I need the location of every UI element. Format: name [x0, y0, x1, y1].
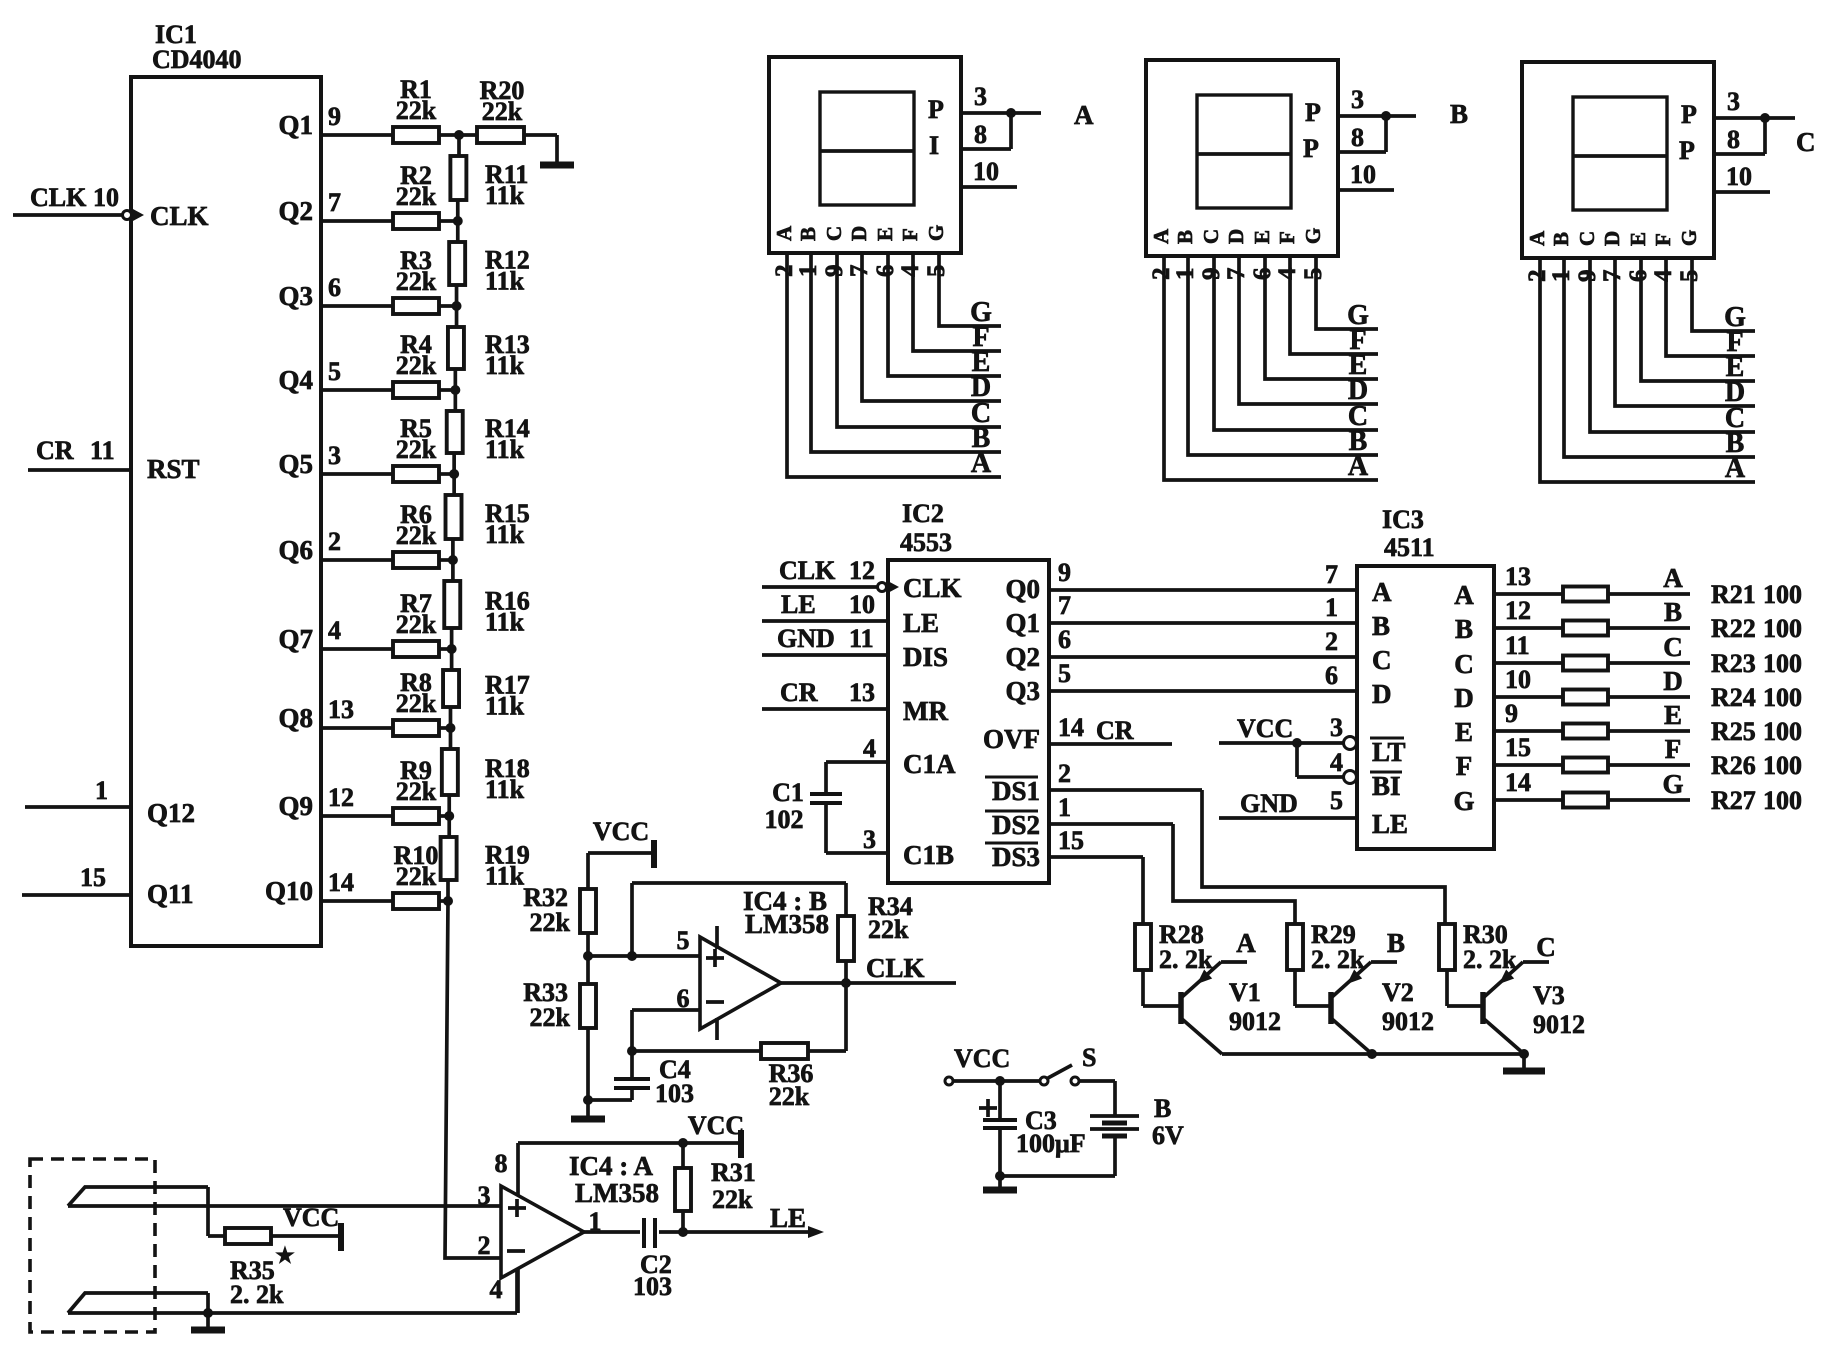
svg-text:Q10: Q10	[265, 876, 313, 906]
svg-text:10: 10	[93, 183, 119, 212]
svg-text:DIS: DIS	[903, 642, 948, 672]
svg-text:P: P	[1679, 136, 1695, 165]
svg-text:OVF: OVF	[983, 724, 1040, 754]
svg-text:100: 100	[1763, 786, 1802, 815]
svg-text:22k: 22k	[396, 435, 437, 464]
svg-text:Q8: Q8	[278, 703, 313, 733]
svg-text:10: 10	[973, 157, 999, 186]
svg-text:IC2: IC2	[902, 499, 944, 528]
svg-text:3: 3	[1330, 713, 1343, 742]
svg-text:C1A: C1A	[903, 749, 956, 779]
svg-text:15: 15	[1058, 826, 1084, 855]
svg-text:I: I	[929, 131, 939, 160]
svg-text:22k: 22k	[396, 777, 437, 806]
svg-text:Q3: Q3	[1005, 676, 1040, 706]
svg-text:★: ★	[276, 1245, 294, 1267]
svg-text:9012: 9012	[1382, 1007, 1434, 1036]
svg-text:VCC: VCC	[688, 1111, 744, 1140]
svg-text:15: 15	[80, 863, 106, 892]
svg-text:F: F	[898, 228, 922, 241]
svg-text:4553: 4553	[900, 528, 952, 557]
svg-text:4: 4	[1274, 267, 1301, 280]
svg-text:11k: 11k	[485, 608, 525, 637]
svg-text:E: E	[1250, 230, 1274, 244]
svg-text:Q9: Q9	[278, 791, 313, 821]
svg-text:3: 3	[1351, 85, 1364, 114]
svg-text:D: D	[1663, 666, 1683, 696]
svg-text:11k: 11k	[485, 775, 525, 804]
svg-text:22k: 22k	[396, 267, 437, 296]
svg-text:8: 8	[1727, 125, 1740, 154]
svg-text:Q1: Q1	[1005, 608, 1040, 638]
svg-text:F: F	[1665, 734, 1682, 764]
svg-text:Q1: Q1	[278, 110, 313, 140]
svg-text:V1: V1	[1229, 978, 1261, 1007]
svg-text:10: 10	[1726, 162, 1752, 191]
svg-text:G: G	[1724, 302, 1746, 333]
svg-text:5: 5	[328, 357, 341, 386]
svg-text:CLK: CLK	[150, 201, 209, 231]
svg-text:12: 12	[328, 783, 354, 812]
svg-text:100μF: 100μF	[1016, 1129, 1086, 1158]
svg-text:R31: R31	[711, 1158, 756, 1187]
svg-text:11k: 11k	[485, 267, 525, 296]
svg-text:14: 14	[1058, 713, 1084, 742]
svg-text:7: 7	[1599, 270, 1626, 283]
svg-text:D: D	[847, 226, 871, 241]
svg-text:2. 2k: 2. 2k	[1159, 945, 1213, 974]
svg-text:22k: 22k	[530, 1003, 571, 1032]
svg-text:D: D	[1454, 683, 1474, 713]
svg-text:100: 100	[1763, 649, 1802, 678]
svg-text:9: 9	[1058, 558, 1071, 587]
svg-text:CR: CR	[1096, 716, 1134, 745]
svg-text:2: 2	[1058, 759, 1071, 788]
svg-text:4: 4	[863, 734, 876, 763]
svg-text:103: 103	[655, 1079, 694, 1108]
svg-text:Q7: Q7	[278, 624, 313, 654]
svg-text:A: A	[1372, 577, 1392, 607]
svg-text:1: 1	[95, 776, 108, 805]
svg-text:6: 6	[1249, 268, 1276, 281]
svg-text:Q12: Q12	[147, 798, 195, 828]
svg-text:11k: 11k	[485, 351, 525, 380]
svg-text:C: C	[1372, 645, 1392, 675]
svg-text:D: D	[1600, 231, 1624, 246]
svg-text:C1B: C1B	[903, 840, 954, 870]
svg-text:2. 2k: 2. 2k	[1463, 945, 1517, 974]
svg-text:9: 9	[328, 102, 341, 131]
svg-text:G: G	[924, 225, 948, 241]
svg-text:DS2: DS2	[992, 810, 1040, 840]
svg-text:R23: R23	[1711, 649, 1756, 678]
svg-text:Q0: Q0	[1005, 574, 1040, 604]
svg-text:A: A	[1074, 100, 1094, 130]
svg-text:E: E	[1664, 700, 1682, 730]
svg-text:B: B	[1450, 99, 1468, 129]
svg-text:V2: V2	[1382, 978, 1414, 1007]
svg-text:R26: R26	[1711, 751, 1756, 780]
svg-text:102: 102	[765, 805, 804, 834]
svg-text:LE: LE	[1372, 809, 1408, 839]
svg-text:3: 3	[328, 441, 341, 470]
svg-text:A: A	[772, 225, 796, 241]
svg-text:100: 100	[1763, 751, 1802, 780]
svg-text:9: 9	[1198, 268, 1225, 281]
svg-text:10: 10	[1505, 665, 1531, 694]
svg-text:A: A	[1525, 230, 1549, 246]
svg-text:Q3: Q3	[278, 281, 313, 311]
svg-text:LM358: LM358	[575, 1178, 659, 1208]
svg-text:22k: 22k	[769, 1082, 810, 1111]
svg-text:100: 100	[1763, 580, 1802, 609]
svg-text:G: G	[1453, 786, 1474, 816]
svg-text:11: 11	[90, 436, 115, 465]
svg-text:14: 14	[328, 868, 354, 897]
svg-text:G: G	[1347, 300, 1369, 331]
svg-text:22k: 22k	[396, 96, 437, 125]
svg-text:4: 4	[1330, 748, 1343, 777]
svg-text:F: F	[1456, 751, 1473, 781]
svg-text:7: 7	[846, 265, 873, 278]
svg-text:22k: 22k	[530, 908, 571, 937]
svg-text:2: 2	[328, 527, 341, 556]
svg-text:Q11: Q11	[147, 879, 194, 909]
svg-text:P: P	[1303, 134, 1319, 163]
svg-text:5: 5	[677, 926, 690, 955]
svg-text:D: D	[1224, 229, 1248, 244]
svg-text:2. 2k: 2. 2k	[1311, 945, 1365, 974]
svg-text:E: E	[1455, 717, 1473, 747]
svg-text:11: 11	[849, 624, 874, 653]
svg-text:Q5: Q5	[278, 449, 313, 479]
svg-text:G: G	[1301, 228, 1325, 244]
svg-text:8: 8	[974, 120, 987, 149]
svg-text:R22: R22	[1711, 614, 1756, 643]
svg-text:5: 5	[1676, 270, 1703, 283]
svg-text:1: 1	[1325, 593, 1338, 622]
svg-text:8: 8	[1351, 123, 1364, 152]
svg-text:15: 15	[1505, 733, 1531, 762]
svg-text:P: P	[928, 95, 944, 124]
svg-text:1: 1	[795, 265, 822, 278]
svg-text:4: 4	[328, 616, 341, 645]
svg-text:R24: R24	[1711, 683, 1756, 712]
svg-text:MR: MR	[903, 696, 948, 726]
svg-text:LT: LT	[1372, 737, 1406, 767]
svg-text:2: 2	[1325, 627, 1338, 656]
svg-text:6V: 6V	[1152, 1121, 1184, 1150]
svg-text:DS3: DS3	[992, 842, 1040, 872]
svg-text:7: 7	[1058, 591, 1071, 620]
svg-text:LM358: LM358	[745, 909, 829, 939]
svg-text:3: 3	[974, 82, 987, 111]
svg-text:BI: BI	[1372, 771, 1401, 801]
svg-text:GND: GND	[1240, 789, 1298, 818]
svg-text:22k: 22k	[396, 610, 437, 639]
svg-text:C: C	[1663, 632, 1683, 662]
svg-text:F: F	[1275, 231, 1299, 244]
svg-text:13: 13	[849, 678, 875, 707]
svg-text:IC4 : A: IC4 : A	[569, 1151, 654, 1181]
svg-text:B: B	[1372, 611, 1390, 641]
svg-text:22k: 22k	[712, 1185, 753, 1214]
svg-text:9: 9	[1574, 270, 1601, 283]
svg-text:CR: CR	[780, 678, 818, 707]
svg-text:9: 9	[1505, 699, 1518, 728]
svg-text:F: F	[1651, 233, 1675, 246]
svg-text:2. 2k: 2. 2k	[230, 1280, 284, 1309]
svg-text:E: E	[1626, 232, 1650, 246]
svg-text:22k: 22k	[396, 351, 437, 380]
svg-text:1: 1	[1548, 270, 1575, 283]
svg-text:2: 2	[1148, 268, 1175, 281]
svg-text:22k: 22k	[482, 97, 523, 126]
svg-text:7: 7	[1223, 268, 1250, 281]
svg-text:R27: R27	[1711, 786, 1756, 815]
svg-text:13: 13	[1505, 562, 1531, 591]
svg-text:CLK: CLK	[866, 953, 925, 983]
svg-text:22k: 22k	[396, 689, 437, 718]
svg-text:B: B	[1664, 597, 1682, 627]
svg-text:5: 5	[1330, 786, 1343, 815]
svg-text:B: B	[1387, 928, 1405, 958]
svg-text:DS1: DS1	[992, 776, 1040, 806]
svg-text:6: 6	[872, 265, 899, 278]
svg-text:103: 103	[633, 1272, 672, 1301]
svg-text:6: 6	[1325, 661, 1338, 690]
svg-text:2: 2	[1524, 270, 1551, 283]
svg-text:11k: 11k	[485, 435, 525, 464]
svg-text:LE: LE	[781, 590, 816, 619]
svg-text:CLK: CLK	[779, 556, 836, 585]
svg-text:C: C	[1454, 649, 1474, 679]
svg-text:10: 10	[1350, 160, 1376, 189]
svg-text:A: A	[1236, 928, 1256, 958]
svg-text:CLK: CLK	[903, 573, 962, 603]
svg-text:3: 3	[1727, 87, 1740, 116]
svg-text:6: 6	[328, 273, 341, 302]
svg-text:5: 5	[1058, 659, 1071, 688]
svg-text:RST: RST	[147, 454, 200, 484]
svg-text:A: A	[1663, 563, 1683, 593]
svg-text:13: 13	[328, 695, 354, 724]
svg-text:5: 5	[923, 265, 950, 278]
svg-text:P: P	[1305, 98, 1321, 127]
svg-text:2: 2	[478, 1231, 491, 1260]
svg-text:4: 4	[490, 1275, 503, 1304]
svg-text:22k: 22k	[396, 521, 437, 550]
svg-text:VCC: VCC	[593, 817, 649, 846]
svg-text:B: B	[796, 227, 820, 241]
svg-text:10: 10	[849, 590, 875, 619]
svg-text:A: A	[1454, 580, 1474, 610]
svg-text:12: 12	[1505, 596, 1531, 625]
svg-text:7: 7	[1325, 560, 1338, 589]
svg-text:B: B	[1173, 230, 1197, 244]
svg-text:B: B	[1455, 614, 1473, 644]
svg-text:G: G	[970, 297, 992, 328]
svg-text:11k: 11k	[485, 520, 525, 549]
svg-text:11k: 11k	[485, 181, 525, 210]
svg-text:3: 3	[863, 825, 876, 854]
svg-text:9012: 9012	[1533, 1010, 1585, 1039]
svg-text:9: 9	[821, 265, 848, 278]
svg-text:8: 8	[495, 1149, 508, 1178]
svg-text:12: 12	[849, 556, 875, 585]
svg-text:9012: 9012	[1229, 1007, 1281, 1036]
svg-text:7: 7	[328, 188, 341, 217]
svg-text:4511: 4511	[1384, 533, 1435, 562]
svg-text:C: C	[822, 226, 846, 241]
svg-text:VCC: VCC	[1237, 714, 1293, 743]
svg-text:22k: 22k	[396, 862, 437, 891]
svg-text:22k: 22k	[868, 915, 909, 944]
svg-text:IC3: IC3	[1382, 505, 1424, 534]
svg-text:G: G	[1662, 769, 1683, 799]
svg-text:LE: LE	[770, 1203, 806, 1233]
svg-text:GND: GND	[777, 624, 835, 653]
svg-text:Q4: Q4	[278, 365, 313, 395]
svg-text:VCC: VCC	[954, 1044, 1010, 1073]
svg-text:1: 1	[1172, 268, 1199, 281]
svg-text:C1: C1	[772, 778, 804, 807]
svg-text:P: P	[1681, 100, 1697, 129]
svg-text:1: 1	[1058, 793, 1071, 822]
svg-text:C: C	[1199, 229, 1223, 244]
svg-text:1: 1	[589, 1207, 602, 1236]
svg-text:6: 6	[1058, 625, 1071, 654]
svg-text:11k: 11k	[485, 692, 525, 721]
svg-text:Q2: Q2	[278, 196, 313, 226]
svg-text:100: 100	[1763, 717, 1802, 746]
svg-text:4: 4	[1650, 269, 1677, 282]
svg-text:E: E	[873, 227, 897, 241]
svg-text:B: B	[1549, 232, 1573, 246]
svg-text:5: 5	[1300, 268, 1327, 281]
svg-text:S: S	[1082, 1043, 1096, 1072]
svg-text:V3: V3	[1533, 981, 1565, 1010]
svg-text:CLK: CLK	[30, 183, 87, 212]
svg-text:4: 4	[897, 264, 924, 277]
svg-text:A: A	[1149, 228, 1173, 244]
svg-text:R25: R25	[1711, 717, 1756, 746]
svg-text:Q2: Q2	[1005, 642, 1040, 672]
svg-text:11: 11	[1505, 631, 1530, 660]
svg-text:14: 14	[1505, 768, 1531, 797]
svg-text:B: B	[1154, 1094, 1171, 1123]
svg-text:R21: R21	[1711, 580, 1756, 609]
svg-text:2: 2	[771, 265, 798, 278]
svg-text:Q6: Q6	[278, 535, 313, 565]
svg-text:CR: CR	[36, 436, 74, 465]
svg-text:100: 100	[1763, 614, 1802, 643]
svg-text:VCC: VCC	[283, 1203, 339, 1232]
svg-text:C: C	[1796, 127, 1816, 157]
svg-text:100: 100	[1763, 683, 1802, 712]
svg-text:G: G	[1677, 230, 1701, 246]
svg-text:6: 6	[1625, 270, 1652, 283]
svg-text:D: D	[1372, 679, 1392, 709]
svg-text:LE: LE	[903, 608, 939, 638]
svg-text:C: C	[1536, 932, 1556, 962]
svg-text:11k: 11k	[485, 862, 525, 891]
svg-text:CD4040: CD4040	[152, 45, 242, 74]
svg-text:C: C	[1575, 231, 1599, 246]
svg-text:22k: 22k	[396, 182, 437, 211]
